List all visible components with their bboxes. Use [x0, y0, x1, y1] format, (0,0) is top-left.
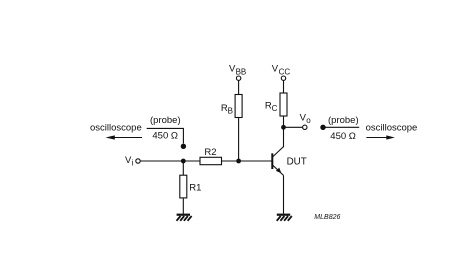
svg-text:R1: R1: [189, 182, 201, 193]
svg-text:(probe): (probe): [328, 115, 359, 126]
svg-text:450 Ω: 450 Ω: [330, 131, 356, 142]
svg-text:BB: BB: [236, 67, 247, 76]
svg-text:DUT: DUT: [287, 156, 307, 167]
svg-text:450 Ω: 450 Ω: [152, 131, 178, 142]
svg-text:B: B: [228, 107, 233, 116]
svg-text:C: C: [272, 104, 278, 113]
svg-text:CC: CC: [279, 67, 291, 76]
svg-text:i: i: [132, 158, 134, 167]
svg-text:R2: R2: [204, 147, 216, 158]
svg-text:MLB826: MLB826: [314, 214, 340, 221]
svg-text:o: o: [306, 116, 311, 125]
svg-text:oscilloscope: oscilloscope: [366, 123, 418, 134]
svg-text:(probe): (probe): [150, 115, 181, 126]
svg-text:oscilloscope: oscilloscope: [90, 123, 142, 134]
